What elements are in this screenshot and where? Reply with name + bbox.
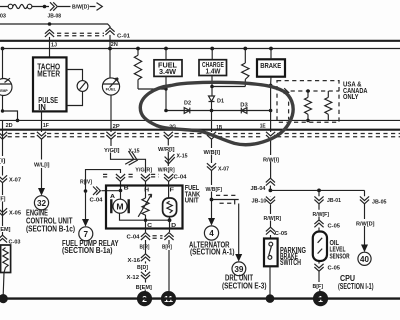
- meter dial (small gauge): [77, 81, 88, 92]
- dashed branch from brake node: [273, 86, 289, 119]
- annotation ellipse (hand-drawn highlight): [140, 82, 293, 144]
- svg-text:1J: 1J: [51, 42, 57, 48]
- connector circle 7: [79, 227, 93, 241]
- pin 2P chevron: [106, 124, 120, 139]
- svg-text:C-05: C-05: [275, 231, 288, 237]
- resistor R (cluster, mid): [242, 49, 249, 87]
- lamp BRAKE: [257, 59, 285, 76]
- note USA & CANADA ONLY: [343, 81, 368, 101]
- svg-text:X-07: X-07: [218, 166, 229, 172]
- svg-text:B[EM]: B[EM]: [136, 285, 152, 291]
- connector X-15 (fuel): [125, 148, 139, 166]
- pin 2G chevron: [164, 124, 177, 139]
- connector X-07 (alt): [207, 163, 229, 172]
- svg-text:C-04: C-04: [127, 234, 141, 240]
- connector JB-01: [314, 196, 341, 204]
- svg-text:UNIT: UNIT: [185, 196, 199, 205]
- svg-text:W/B[I]: W/B[I]: [204, 150, 221, 156]
- svg-text:D2: D2: [184, 100, 191, 106]
- label R/W[R]: [264, 216, 282, 222]
- labels B[R] B[R]: [140, 245, 173, 251]
- label R[IV]: [80, 179, 92, 185]
- label [I]: [0, 158, 6, 164]
- wire temp gauge to bus: [2, 96, 4, 112]
- wire 1E column down: [269, 139, 271, 238]
- svg-text:EMP: EMP: [0, 88, 8, 93]
- wire top feed B/W: [0, 6, 96, 8]
- label B[D]: [137, 265, 148, 271]
- svg-text:(SECTION B-1c): (SECTION B-1c): [26, 224, 75, 233]
- diode D2: [184, 100, 191, 113]
- wire charge lamp bottom: [210, 76, 214, 97]
- label R/W[D]: [356, 222, 375, 228]
- wire to ground: [2, 273, 5, 296]
- svg-text:(SECTION E-3): (SECTION E-3): [222, 281, 267, 290]
- connector C-03: [0, 235, 21, 245]
- svg-text:2D: 2D: [6, 123, 13, 129]
- motor M (fuel pump): [111, 191, 128, 214]
- resistor R (option, left): [305, 91, 312, 122]
- ground 1: [313, 291, 328, 306]
- node dot: [1, 109, 4, 112]
- svg-text:Y/G[I]: Y/G[I]: [104, 148, 120, 154]
- wire oil column: [318, 190, 321, 291]
- wire 1F column (pulse): [41, 111, 43, 188]
- wire Y/G (2P) run: [111, 139, 146, 172]
- connector C-01 chevron left: [45, 30, 54, 37]
- wire resistor to fuel lamp bottom: [138, 87, 168, 90]
- connector circle 39: [232, 262, 246, 276]
- svg-text:C-04: C-04: [174, 174, 188, 180]
- note OIL LEVEL SENSOR: [330, 238, 350, 260]
- svg-text:X-15: X-15: [129, 148, 140, 154]
- wire branch to y120.5 line: [3, 111, 18, 120]
- connector C-04 pin F chevron: [164, 174, 187, 181]
- wires into tank box: [121, 181, 169, 198]
- note FUEL TANK UNIT: [185, 183, 201, 205]
- wire pin D down: [169, 220, 171, 232]
- connector circle 32: [34, 196, 48, 210]
- connector JB-04: [251, 178, 276, 192]
- svg-text:ONLY: ONLY: [343, 94, 359, 101]
- label B[EM]: [136, 285, 152, 291]
- connector X-15 (warning): [165, 153, 188, 164]
- lamp FUEL 3.4W: [154, 60, 182, 77]
- wire brake lamp top: [270, 49, 272, 60]
- svg-text:A: A: [110, 194, 115, 200]
- svg-text:X-07: X-07: [9, 177, 21, 183]
- svg-text:M: M: [116, 201, 123, 211]
- ground 2: [137, 291, 152, 306]
- connector C-05 (oil lower): [314, 264, 340, 272]
- connector row C-04 above tank: dashes: [103, 174, 159, 177]
- fuel warning sensor (pill with resistor): [163, 198, 177, 220]
- svg-text:4: 4: [209, 229, 214, 238]
- cluster bottom edge (thick): [0, 129, 400, 131]
- svg-text:X-12: X-12: [127, 275, 140, 281]
- connector X-16: [128, 254, 151, 264]
- svg-text:SWITCH: SWITCH: [280, 258, 301, 267]
- svg-text:D1: D1: [217, 98, 224, 104]
- wire brake lamp bottom / 1E column: [269, 77, 273, 132]
- wire 2N: [110, 35, 118, 78]
- diode D1: [209, 96, 225, 104]
- svg-text:C-05: C-05: [328, 265, 341, 271]
- connector C-04 pin B chevron: [116, 174, 125, 181]
- svg-text:R/W[D]: R/W[D]: [356, 222, 375, 228]
- arrow into alternator: [208, 218, 215, 226]
- wire 1B column (alternator): [211, 139, 213, 218]
- wire diode row: [166, 110, 271, 112]
- temp gauge feed wire: [2, 49, 4, 79]
- svg-text:METER: METER: [37, 69, 60, 78]
- node dots diode row: [164, 109, 272, 113]
- wire pin A into box: [102, 191, 121, 200]
- wire 1J: [50, 37, 58, 58]
- note ENGINE CONTROL UNIT: [26, 208, 75, 234]
- dashed node line in option box: [283, 89, 339, 93]
- gauge TEMP: [0, 78, 12, 95]
- svg-text:1F: 1F: [43, 123, 50, 129]
- connector C-05 (oil upper): [314, 220, 340, 230]
- dashed option box USA/CANADA: [277, 81, 339, 123]
- wire DRL column: [238, 204, 240, 255]
- connector X-12: [127, 272, 151, 281]
- wire bus y24: [0, 24, 110, 29]
- svg-text:[F]: [F]: [0, 196, 6, 202]
- wire 1B down from diode row: [211, 111, 213, 133]
- connector JB-08: [48, 2, 62, 19]
- gauge FUEL: [102, 78, 119, 95]
- wire fuel lamp bottom to diode row: [165, 76, 167, 110]
- svg-text:C-01: C-01: [117, 33, 130, 39]
- wire fuel lamp top: [165, 49, 167, 60]
- svg-text:B[R]: B[R]: [140, 245, 150, 251]
- svg-text:B[D]: B[D]: [137, 265, 148, 271]
- labels Y/G[R] W/R[R]: [135, 167, 175, 173]
- svg-text:(SECTION B-1a): (SECTION B-1a): [62, 246, 113, 255]
- svg-text:IN: IN: [38, 103, 46, 112]
- svg-text:X-05: X-05: [9, 210, 21, 216]
- node dot JB junction: [269, 189, 273, 193]
- connector JB-05: [360, 196, 387, 205]
- wire charge node to resistor: [212, 86, 245, 88]
- svg-text:JB-04: JB-04: [251, 186, 267, 192]
- wire D1 to diode row: [211, 102, 213, 111]
- svg-text:7: 7: [84, 230, 89, 239]
- wire pump ground col: [144, 240, 146, 292]
- note CPU: [338, 274, 374, 291]
- box FUEL TANK UNIT: [106, 185, 183, 229]
- connector C-04 pin H chevron: [141, 174, 150, 181]
- label W/B[F]: [206, 187, 223, 193]
- resistor box C-03: [1, 245, 11, 273]
- connector JB-10: [252, 197, 276, 205]
- svg-text:B: B: [124, 185, 129, 191]
- pin 2D chevron: [0, 123, 13, 139]
- node dot 1J feed: [48, 22, 52, 26]
- svg-text:JB-10: JB-10: [252, 199, 267, 205]
- wire charge lamp top: [211, 49, 213, 60]
- svg-text:R/W[R]: R/W[R]: [264, 216, 282, 222]
- connector X-07 (left): [0, 175, 21, 183]
- cluster top edge (thick bus): [0, 40, 400, 42]
- connector C-05 (park): [266, 227, 287, 237]
- svg-text:1E: 1E: [260, 123, 266, 129]
- svg-text:D: D: [171, 223, 176, 229]
- wire park switch to ground: [269, 266, 271, 295]
- svg-text:(SECTION A-1): (SECTION A-1): [190, 247, 235, 256]
- wire JB distribution line: [270, 189, 364, 191]
- wire bracket to meter dial: [67, 70, 83, 106]
- wire lamp bus y48.5: [2, 48, 400, 50]
- svg-text:R/W[F]: R/W[F]: [313, 212, 330, 218]
- arrow into CPU: [361, 245, 368, 253]
- node dot oil branch: [317, 189, 321, 193]
- svg-text:X-16: X-16: [128, 258, 141, 264]
- svg-text:(SECTION I-1): (SECTION I-1): [338, 282, 374, 291]
- wire pin line y120.5: [0, 119, 400, 121]
- pin 1E chevron: [260, 123, 276, 139]
- svg-text:-03: -03: [0, 13, 6, 19]
- node dot pin B junction: [119, 189, 123, 193]
- connector C-04 pin A chevron: [90, 187, 104, 204]
- svg-text:B/W[D]: B/W[D]: [72, 5, 89, 11]
- connector X-05: [0, 208, 21, 216]
- wire 2P (fuel gauge down): [110, 95, 112, 132]
- wire motor bottom: [120, 213, 170, 220]
- wire CPU column: [364, 190, 366, 244]
- svg-text:W/R[I]: W/R[I]: [158, 147, 175, 153]
- svg-text:W/L[I]: W/L[I]: [34, 162, 50, 168]
- variable resistor (sender): [138, 194, 151, 220]
- svg-text:R[IV]: R[IV]: [80, 179, 92, 185]
- connector circle 4: [204, 226, 218, 240]
- wire to fuel pump relay arrow: [85, 191, 87, 219]
- node dots on lamp bus: [1, 47, 273, 51]
- svg-text:JB-01: JB-01: [327, 198, 341, 204]
- connector circle 40: [358, 252, 371, 265]
- svg-text:F: F: [170, 188, 175, 194]
- svg-text:C-05: C-05: [328, 223, 341, 229]
- node dot on top wire: [43, 5, 47, 9]
- svg-text:2N: 2N: [111, 42, 118, 48]
- svg-text:JB-08: JB-08: [48, 14, 62, 20]
- label [EM]: [0, 227, 11, 233]
- node dots sender bottom: [144, 218, 172, 222]
- resistor R (option, right): [325, 91, 332, 120]
- box TACHO METER: [33, 57, 67, 111]
- svg-text:[EM]: [EM]: [0, 227, 11, 233]
- svg-text:W/B[F]: W/B[F]: [206, 187, 223, 193]
- note ALTERNATOR: [189, 240, 235, 256]
- diode D3: [240, 102, 248, 113]
- arrow into DRL: [235, 254, 242, 262]
- svg-text:[I]: [I]: [0, 158, 6, 164]
- box parking brake switch: [264, 239, 278, 267]
- pin 1F chevron: [37, 123, 50, 139]
- svg-text:W/R[R]: W/R[R]: [158, 167, 175, 173]
- fuse F (circle-coil-circle): [8, 4, 32, 9]
- ground bus: [3, 297, 400, 299]
- wire R[IV] bracket: [86, 170, 121, 191]
- node dot alt branch: [210, 198, 214, 202]
- svg-text:JB-05: JB-05: [372, 199, 387, 205]
- lamp CHARGE 1.4W: [199, 60, 227, 76]
- note FUEL PUMP RELAY: [62, 239, 119, 255]
- connector C-01 chevron right: [105, 28, 130, 40]
- label [F]: [0, 196, 6, 202]
- label -03 (cut at edge): [0, 13, 6, 19]
- svg-text:40: 40: [360, 255, 369, 264]
- arrow into relay: [82, 219, 89, 227]
- svg-text:B[R]: B[R]: [162, 245, 172, 251]
- svg-text:3.4W: 3.4W: [159, 67, 176, 76]
- arrow into ECU: [38, 188, 45, 196]
- svg-text:32: 32: [37, 199, 47, 208]
- svg-text:SENSOR: SENSOR: [330, 251, 350, 260]
- svg-text:2P: 2P: [113, 124, 120, 130]
- label B[R] mid: [0, 0, 1, 1]
- wire sender ground col: [168, 240, 170, 291]
- svg-text:FUEL: FUEL: [106, 86, 117, 91]
- label R/W[F]: [313, 212, 330, 218]
- label R/W[I]: [263, 157, 279, 163]
- note PARKING BRAKE SWITCH: [280, 246, 306, 267]
- svg-text:X-15: X-15: [177, 153, 188, 159]
- connector row C-04 below tank: [127, 233, 174, 241]
- svg-text:D3: D3: [240, 102, 248, 108]
- wire label B/W[D]: [72, 5, 89, 11]
- wire 2D column down: [2, 120, 4, 235]
- svg-text:1.4W: 1.4W: [206, 69, 221, 76]
- off-page arrow right: [97, 3, 103, 11]
- svg-text:H: H: [144, 187, 149, 193]
- node dot pin A feed: [84, 189, 88, 193]
- wire W/R (2G) down: [167, 139, 169, 172]
- svg-text:Y/G[R]: Y/G[R]: [135, 167, 152, 173]
- branch wire to DRL with inline connector dashes: [212, 195, 239, 204]
- svg-text:C: C: [147, 223, 152, 229]
- svg-text:B[F]: B[F]: [313, 284, 324, 290]
- connector C-01 dashes: [57, 33, 104, 36]
- ground node dot: [266, 294, 275, 303]
- label W/R[I]: [158, 147, 175, 153]
- resistor R (cluster, left): [134, 49, 141, 89]
- label W/B[I]: [204, 150, 221, 156]
- svg-text:C-04: C-04: [90, 197, 104, 203]
- note DRL UNIT: [222, 273, 267, 290]
- svg-text:R/W[I]: R/W[I]: [263, 157, 279, 163]
- label W/L[I]: [34, 162, 50, 168]
- svg-text:BRAKE: BRAKE: [260, 61, 281, 70]
- connector strip dashes: [8, 134, 400, 137]
- svg-text:1B: 1B: [216, 125, 222, 131]
- oil level sensor (pill): [313, 232, 327, 262]
- ground 11: [161, 291, 176, 306]
- pin 1B chevron: [207, 125, 222, 139]
- ground bus left node: [0, 294, 8, 303]
- node dot: [16, 119, 20, 123]
- label B[F]: [313, 284, 324, 290]
- label Y/G[I]: [104, 148, 120, 154]
- wire pin C down: [145, 220, 147, 232]
